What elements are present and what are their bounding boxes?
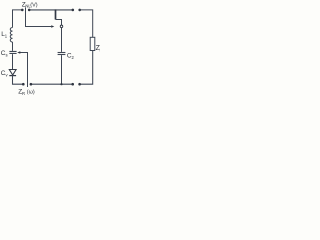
svg-text:L: L [100, 47, 101, 52]
svg-text:(ω): (ω) [27, 90, 35, 96]
svg-text:R: R [22, 91, 25, 96]
svg-text:s: s [6, 52, 8, 57]
svg-text:(V): (V) [30, 3, 38, 9]
